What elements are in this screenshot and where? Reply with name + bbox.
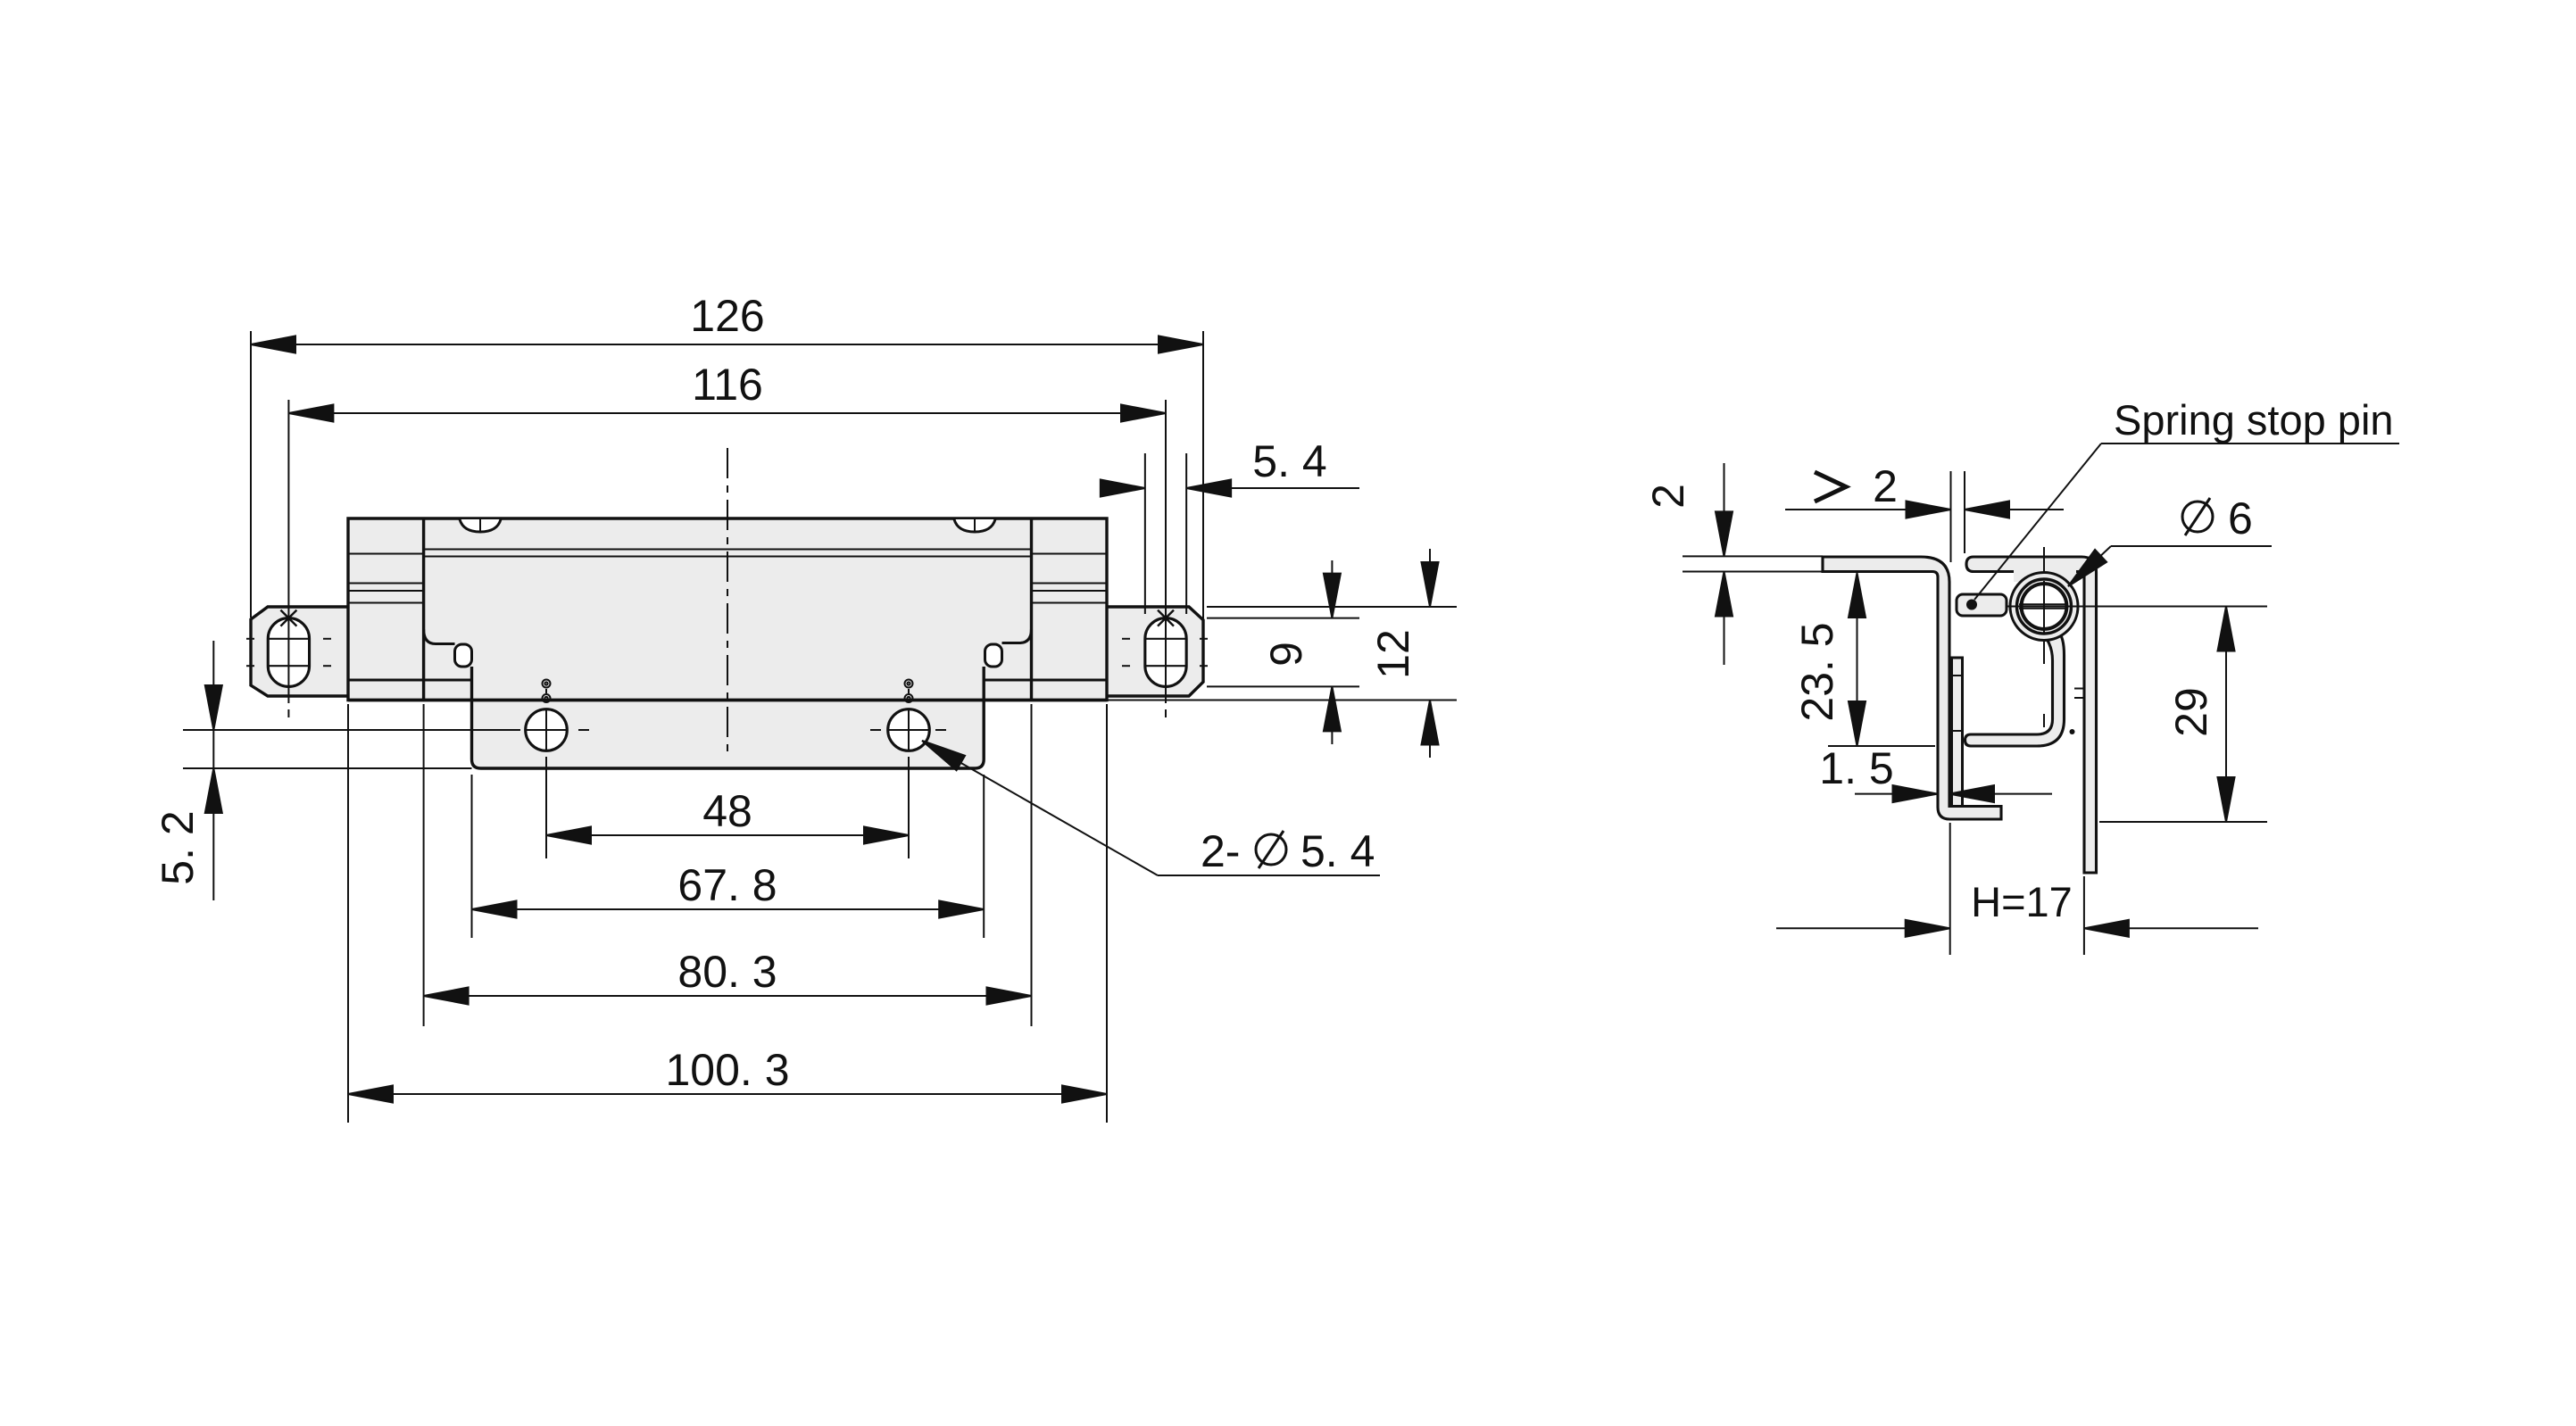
dim 116 extension right / slot centerline (1165, 400, 1167, 703)
right hole (888, 709, 930, 751)
dim 2 extensions (1683, 555, 1823, 557)
svg-text:6: 6 (2228, 493, 2253, 543)
right mounting tab (1107, 607, 1203, 696)
bracket (fixed leaf L-profile) (1823, 557, 2001, 819)
dim 126 extension left (250, 331, 252, 618)
svg-text:67. 8: 67. 8 (677, 860, 777, 910)
dim 5.4 extensions (1144, 453, 1146, 614)
dim 12 line (1429, 549, 1431, 607)
dim 67.8 line (472, 908, 985, 910)
dim 116 extension left / slot centerline (287, 400, 289, 703)
svg-text:29: 29 (2166, 687, 2216, 737)
dim 48 extensions (545, 757, 547, 858)
leader 2-dia5.4 (922, 741, 1158, 875)
left relief notch (424, 629, 455, 644)
svg-text:116: 116 (692, 360, 763, 410)
dim 100.3 line (348, 1093, 1107, 1095)
body gray fill (251, 518, 1203, 768)
dim 9 line (1331, 560, 1333, 618)
left block serration lines (348, 554, 424, 603)
screw head left (460, 519, 501, 532)
right slot centermark (1158, 610, 1174, 626)
dim 126 line (251, 344, 1203, 345)
dim 5.2 line (212, 641, 214, 900)
svg-text:5. 4: 5. 4 (1300, 826, 1375, 876)
middle strip (tab cross-section) (1952, 658, 1963, 807)
pin slot (2019, 603, 2068, 605)
dim H=17 line (1776, 927, 1950, 929)
view vertical centerline (727, 448, 728, 754)
dim H=17 extensions (1949, 823, 1951, 955)
coil-flange merge patch (2014, 566, 2076, 582)
lower plate outline (472, 667, 985, 768)
dim >2 line (1785, 509, 1951, 510)
right relief notch (1002, 629, 1032, 643)
leader dia6 (2068, 546, 2111, 586)
body outline (348, 518, 1107, 701)
spring lower arm and wire (1965, 626, 2065, 746)
block step line left (348, 679, 472, 682)
svg-text:H=17: H=17 (1971, 878, 2073, 925)
svg-text:1. 5: 1. 5 (1819, 743, 1893, 793)
dim 9 extensions (1207, 618, 1359, 619)
dim 23.5 line (1857, 573, 1858, 746)
greater-than symbol for >2 (1815, 472, 1846, 502)
screw head right (954, 519, 995, 532)
block step line right (984, 679, 1107, 682)
dim 29 extension bottom (2099, 821, 2267, 823)
left slot obround (268, 618, 309, 687)
left hole screw marks (543, 680, 551, 703)
svg-text:5. 4: 5. 4 (1252, 436, 1326, 486)
right hole screw marks (905, 680, 913, 703)
left slot chord outer ticks (246, 639, 331, 666)
dim 80.3 extensions (423, 704, 425, 1026)
right slot obround (1145, 618, 1186, 687)
body bottom edge (348, 699, 1107, 701)
svg-text:80. 3: 80. 3 (677, 947, 777, 997)
svg-text:100. 3: 100. 3 (665, 1045, 789, 1095)
dim 29 line (2225, 607, 2227, 823)
dim 100.3 extensions (347, 704, 349, 1123)
dim 12 extensions (1207, 606, 1457, 608)
pivot pin dia6 (2022, 584, 2067, 629)
svg-text:126: 126 (690, 291, 764, 341)
pin vertical centerline (2043, 547, 2045, 727)
dim 1.5 line (1855, 793, 1938, 795)
dim 67.8 extensions (471, 775, 473, 938)
svg-text:23. 5: 23. 5 (1792, 622, 1842, 721)
left hole (526, 709, 568, 751)
dim 116 line (288, 412, 1166, 414)
svg-text:12: 12 (1368, 629, 1418, 679)
dim 5.2 extension (183, 767, 472, 769)
dim 126 extension right (1202, 331, 1204, 618)
right slot chord outer ticks (1122, 639, 1208, 666)
central face double line upper (424, 549, 1032, 551)
central face double line lower (424, 556, 1032, 558)
pin horizontal centerline / 29 top extension (1999, 606, 2267, 608)
left slot centermark (280, 610, 296, 626)
moving leaf (flange + vertical leaf) (1966, 557, 2097, 873)
right block serration lines (1032, 554, 1108, 603)
spring coil outer (2010, 573, 2078, 641)
leader spring stop pin (1974, 444, 2101, 600)
spring coil wire circle (2017, 579, 2072, 634)
svg-text:2-: 2- (1201, 826, 1240, 876)
dim >2 extensions (1950, 471, 1952, 562)
dia symbol for dia6 (2182, 498, 2213, 535)
dim 80.3 line (424, 995, 1032, 997)
svg-text:48: 48 (702, 786, 752, 836)
left end block right edge (422, 518, 425, 701)
svg-text:5. 2: 5. 2 (153, 810, 203, 884)
left slot chord lines (269, 638, 310, 640)
svg-text:9: 9 (1261, 642, 1311, 667)
left mounting tab (251, 607, 348, 696)
dia symbol for 2-dia5.4 (1256, 831, 1286, 868)
right end block left edge (1030, 518, 1033, 701)
dim 23.5 extension (1828, 745, 1935, 747)
svg-text:Spring stop pin: Spring stop pin (2114, 396, 2394, 444)
right slot chord lines (1145, 638, 1186, 640)
svg-text:2: 2 (1873, 461, 1898, 511)
dim 5.4 line (1100, 487, 1145, 489)
dim 48 line (546, 834, 909, 836)
svg-text:2: 2 (1643, 484, 1693, 509)
leaf tick marks (2074, 688, 2085, 690)
holes horizontal centerline (183, 729, 520, 731)
dim 2 line (1724, 463, 1725, 556)
spring stop pin (1957, 594, 2007, 616)
